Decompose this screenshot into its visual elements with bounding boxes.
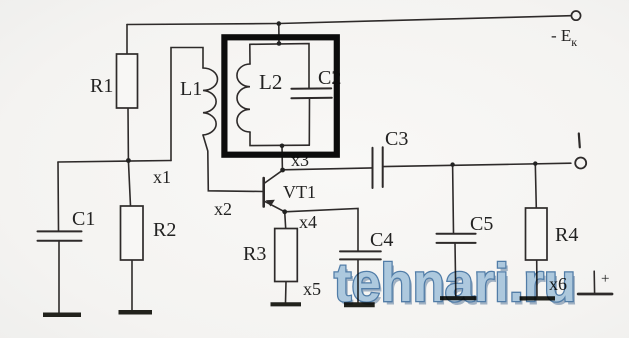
svg-text:L1: L1 — [180, 78, 202, 100]
svg-text:+: + — [601, 271, 609, 287]
svg-text:L2: L2 — [259, 70, 282, 94]
svg-text:x4: x4 — [299, 212, 317, 232]
svg-text:C4: C4 — [370, 229, 393, 251]
svg-text:R4: R4 — [555, 224, 578, 246]
svg-text:R3: R3 — [243, 243, 266, 265]
svg-text:VT1: VT1 — [283, 182, 316, 202]
svg-text:R1: R1 — [90, 75, 113, 97]
svg-text:x5: x5 — [303, 279, 321, 299]
svg-text:R2: R2 — [153, 219, 176, 241]
svg-text:C3: C3 — [385, 128, 408, 150]
svg-text:C5: C5 — [470, 213, 493, 235]
svg-text:x2: x2 — [214, 199, 232, 219]
svg-text:tehnari.ru: tehnari.ru — [334, 253, 576, 313]
svg-text:x1: x1 — [153, 167, 171, 187]
svg-text:C1: C1 — [72, 208, 95, 230]
